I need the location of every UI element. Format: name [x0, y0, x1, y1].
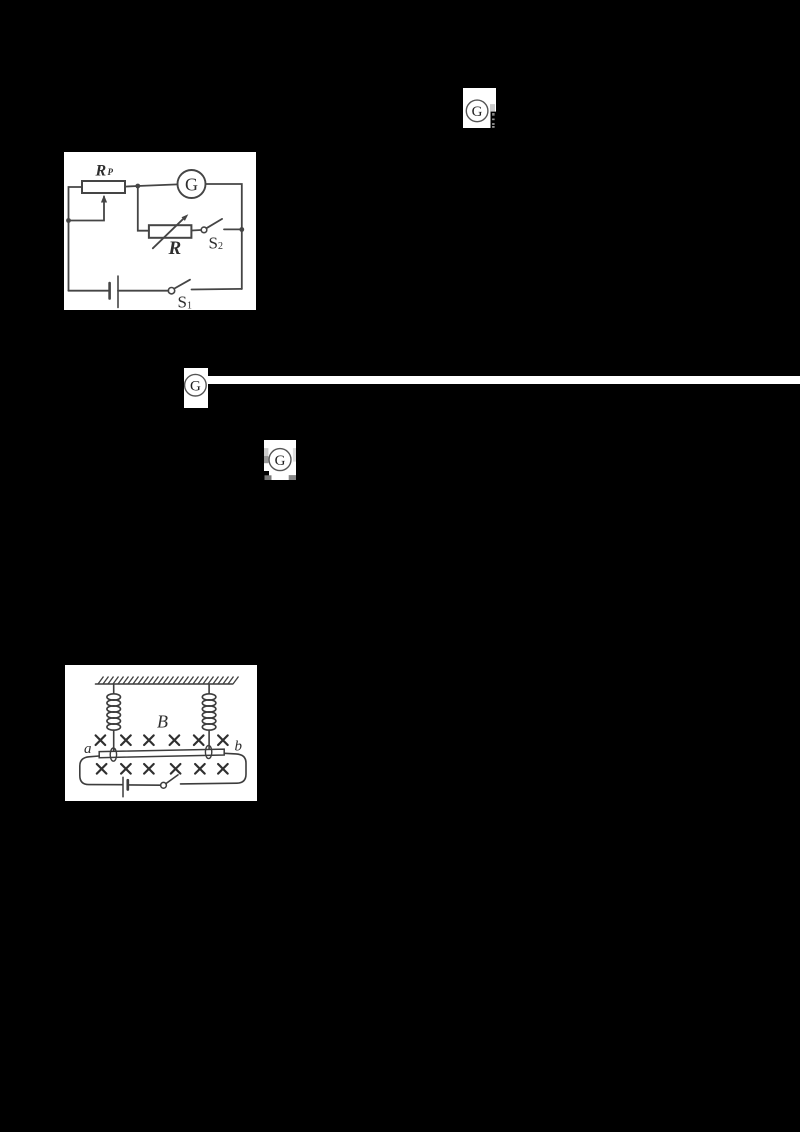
svg-text:S: S	[178, 293, 187, 311]
svg-text:G: G	[275, 453, 286, 469]
svg-text:S: S	[209, 234, 218, 253]
svg-text:R: R	[168, 238, 182, 259]
svg-text:2: 2	[218, 241, 223, 252]
svg-text:a: a	[84, 741, 92, 757]
svg-text:b: b	[235, 739, 243, 755]
svg-text:1: 1	[187, 301, 192, 311]
svg-text:P: P	[108, 167, 114, 177]
svg-text:G: G	[472, 104, 483, 120]
svg-text:G: G	[190, 379, 201, 395]
svg-text:R: R	[95, 163, 107, 180]
svg-text:G: G	[185, 174, 198, 194]
svg-text:B: B	[157, 712, 168, 732]
